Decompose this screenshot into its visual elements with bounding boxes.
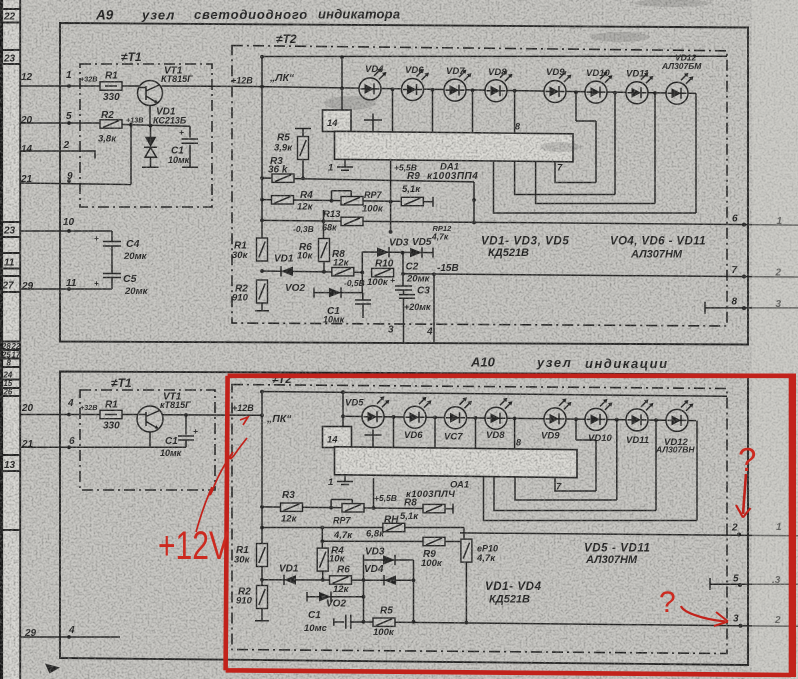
svg-text:+12V: +12V (158, 524, 229, 568)
svg-text:?: ? (738, 441, 756, 478)
svg-text:?: ? (659, 586, 676, 619)
